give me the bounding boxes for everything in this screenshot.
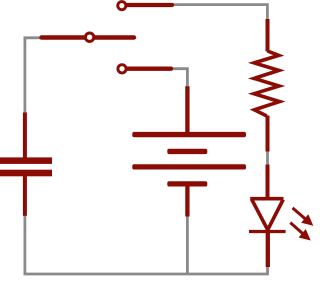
- wire: left from lever pivot arm down left side: [25, 38, 41, 114]
- capacitor C1 bottom lead: [23, 176, 27, 216]
- battery B1 plate 3 (long, +): [132, 164, 246, 169]
- capacitor C1 plates: [0, 157, 52, 176]
- resistor R1 top lead: [266, 19, 270, 52]
- resistor R1 zigzag body: [254, 51, 280, 116]
- switch SW3 terminal circle: [118, 65, 126, 73]
- LED D1 light arrow 2 (lower): [290, 223, 310, 241]
- switch SW2 pivot circle: [85, 33, 93, 41]
- resistor R1 bottom lead: [266, 116, 270, 152]
- switch SW2 lever (middle pole): [42, 35, 135, 39]
- LED D1 cathode bar: [249, 230, 286, 233]
- wire: from SW3 terminal to battery B1 top: [172, 69, 187, 87]
- LED D1 top lead: [266, 165, 270, 199]
- wire: battery B1 bottom vertical: [186, 216, 189, 274]
- wire: left-bottom vertical below capacitor C1: [23, 215, 26, 274]
- switch SW1 throw contact (top): lever arm: [126, 3, 172, 7]
- LED D1 bottom lead: [266, 232, 270, 268]
- LED D1 triangle (anode): [250, 199, 283, 230]
- wire: LED D1 bottom vertical to bus: [266, 267, 269, 274]
- battery B1 plate 4 (short, -): [167, 181, 207, 186]
- switch SW1 terminal circle: [118, 2, 126, 10]
- battery B1 top lead: [185, 86, 189, 132]
- wire: top from SW1 terminal to resistor R1 top: [173, 5, 268, 21]
- LED D1 light arrow 1 (upper): [293, 208, 314, 226]
- switch SW3 throw contact (lower): lever arm: [127, 67, 172, 71]
- wire: gray segment between resistor R1 and LED D1: [266, 151, 269, 165]
- wire: bottom horizontal bus: [24, 273, 269, 276]
- capacitor C1 top lead: [23, 113, 27, 159]
- battery B1 plate 2 (short, -): [167, 149, 207, 154]
- battery B1 plate 1 (long, +): [132, 132, 246, 137]
- battery B1 bottom lead: [185, 186, 189, 217]
